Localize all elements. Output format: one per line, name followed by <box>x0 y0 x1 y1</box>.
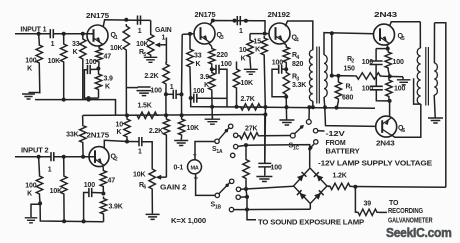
svg-text:INPUT 2: INPUT 2 <box>21 148 49 155</box>
resistor 100 Q5a label <box>393 59 404 66</box>
transformer T1 secondary <box>324 33 376 127</box>
wire meter top <box>195 142 215 160</box>
transformer T1 core <box>317 47 320 104</box>
svg-text:TO SOUND EXPOSURE LAMP: TO SOUND EXPOSURE LAMP <box>258 219 365 226</box>
wire to sound exposure lamp <box>247 197 256 220</box>
wire T2 primary stub <box>414 78 421 104</box>
wire Q3 base drop <box>181 34 184 115</box>
svg-text:SeekIC.com: SeekIC.com <box>386 225 452 240</box>
switch S1A contact 4 <box>231 153 235 157</box>
resistor 27K switch <box>238 133 291 139</box>
svg-text:INPUT 1: INPUT 1 <box>20 26 46 33</box>
junction rail2 end <box>263 113 267 117</box>
resistor 2.2K lower label <box>149 128 163 135</box>
resistor 10K Q1 collector load <box>123 24 129 115</box>
wire input1 to Q1 base <box>53 33 93 35</box>
switch S1B arm <box>219 183 230 194</box>
resistor 1.2K label <box>333 173 347 180</box>
capacitor 100 Q5a label <box>362 59 373 66</box>
junction cap b right <box>244 19 248 23</box>
transistor Q2 <box>89 147 109 167</box>
svg-text:K: K <box>204 82 209 89</box>
junction input1-c <box>81 32 85 36</box>
resistor 2.2K upper <box>163 62 169 94</box>
resistor 10K Q4 lower <box>233 62 239 107</box>
resistor 10K Q4 labels <box>239 47 247 63</box>
svg-text:GAIN 2: GAIN 2 <box>160 185 187 192</box>
switch S1B pivot <box>215 193 219 197</box>
wire R2 bias divider vertical <box>331 33 333 75</box>
resistor R3 labels <box>292 74 306 90</box>
svg-text:4: 4 <box>296 55 299 61</box>
svg-text:100: 100 <box>272 60 283 67</box>
junction 3.9K rail crossing <box>210 105 214 109</box>
svg-text:1: 1 <box>138 28 142 35</box>
switch S1C right contact b <box>314 140 318 144</box>
svg-text:47: 47 <box>104 54 112 61</box>
wire input2 rail <box>40 203 104 221</box>
wire rail mid <box>191 98 375 108</box>
svg-text:100: 100 <box>85 59 96 66</box>
capacitor 100 Q2 <box>84 188 104 222</box>
wire S1A to bridge <box>238 145 310 168</box>
svg-text:10K: 10K <box>241 80 253 87</box>
label TO RECORDING GALVANOMETER <box>388 200 433 224</box>
svg-text:K: K <box>27 66 32 73</box>
resistor 10K lower left <box>124 117 130 142</box>
resistor 2.7K label <box>241 96 255 103</box>
resistor R4 labels <box>292 52 303 68</box>
svg-text:2: 2 <box>115 156 118 162</box>
svg-text:1B: 1B <box>215 204 222 210</box>
junction input1-a <box>37 32 41 36</box>
transistor Q2 ref <box>111 154 118 163</box>
bridge rectifier outline <box>294 168 328 204</box>
resistor 3.9K Q3 labels <box>200 74 210 89</box>
junction Q5 emitter <box>386 47 390 51</box>
potentiometer R6 gain2 <box>149 167 155 214</box>
capacitor 100 Q3 lower <box>191 94 227 103</box>
junction T1 sec rail crossing <box>323 105 327 109</box>
svg-text:2N175: 2N175 <box>195 12 216 19</box>
svg-text:3.9: 3.9 <box>200 74 210 81</box>
transistor Q5 type label <box>374 12 397 19</box>
svg-text:2.7K: 2.7K <box>241 96 255 103</box>
svg-text:100: 100 <box>393 59 404 66</box>
transistor Q4 <box>269 23 290 44</box>
wire Q3 collector to rail <box>210 21 265 34</box>
wiper arrow R5 <box>155 38 167 64</box>
transistor Q3 ref <box>217 32 224 41</box>
svg-text:100: 100 <box>362 59 373 66</box>
transistor Q3 <box>194 23 215 44</box>
resistor 33K Q3 bias <box>187 34 193 98</box>
capacitor 1 Q2 coupling label <box>138 149 142 156</box>
ground T2 secondary <box>428 118 443 123</box>
junction 39 tap <box>353 185 357 189</box>
label K=X 1000 <box>171 218 206 225</box>
node INPUT 2 label <box>21 148 49 155</box>
switch S1C arm <box>295 125 304 133</box>
resistor 10K Q4 lower label <box>241 80 253 87</box>
capacitor 100 Q4 <box>272 65 286 97</box>
junction exposure lamp wire <box>245 189 249 199</box>
junction rail2 2.2K <box>164 113 168 117</box>
junction S1B bridge wire <box>244 187 248 191</box>
resistor R2 labels <box>344 56 355 73</box>
capacitor 1 top rail a label <box>138 28 142 35</box>
transistor Q1 type label <box>86 13 109 20</box>
switch S1B contact 3 <box>236 195 240 199</box>
resistor 3.9K Q3 <box>209 71 215 119</box>
junction rail2 10Kr <box>180 113 184 117</box>
svg-text:100: 100 <box>151 88 162 95</box>
wire bridge bottom run <box>234 208 311 210</box>
meter minus <box>193 152 197 159</box>
switch S1A contact 2 <box>234 133 238 137</box>
switch S1B contact top <box>230 179 234 183</box>
svg-text:10K: 10K <box>133 171 145 178</box>
svg-text:K: K <box>255 47 260 54</box>
svg-text:K: K <box>105 84 110 91</box>
junction rail mid d <box>307 105 311 109</box>
capacitor 100 filter label <box>271 165 282 172</box>
junction Q4 base 15K <box>263 32 267 36</box>
svg-text:GALVANOMETER: GALVANOMETER <box>388 217 433 224</box>
resistor 10K input1 <box>61 34 67 100</box>
SeekIC watermark <box>386 225 452 240</box>
svg-text:3.3K: 3.3K <box>292 82 306 89</box>
svg-text:10K: 10K <box>50 188 62 195</box>
ground R5 <box>144 57 158 62</box>
resistor 100 Q5a <box>385 49 391 77</box>
switch S1C right arm b <box>308 144 314 151</box>
wire Q5 collector <box>390 22 421 26</box>
transistor Q6 ref <box>398 125 405 134</box>
wire bridge bottom stub <box>309 204 311 210</box>
resistor 47 Q2 <box>100 166 106 194</box>
svg-text:6: 6 <box>402 128 405 134</box>
svg-text:K: K <box>241 56 246 63</box>
svg-text:K: K <box>73 49 78 56</box>
meter 0-1 label <box>174 165 184 172</box>
resistor 220 label <box>217 52 228 59</box>
transistor Q5 ref <box>398 33 405 42</box>
wire T2 hairpin right <box>435 23 446 188</box>
label -12V LAMP SUPPLY VOLTAGE <box>318 161 433 168</box>
capacitor 1 interstage <box>166 90 182 99</box>
potentiometer R5 gain1 <box>148 20 154 57</box>
svg-text:100: 100 <box>84 182 95 189</box>
resistor 3.9K Q2 label <box>109 204 123 211</box>
svg-text:39: 39 <box>364 201 372 208</box>
junction Q1 emitter <box>96 67 100 71</box>
wire Q2 collector to rail3 <box>104 140 127 148</box>
resistor R2 150 <box>332 73 403 79</box>
resistor 100 Q5b <box>386 76 392 101</box>
junction top rail 10K <box>124 18 128 22</box>
junction input2-a <box>37 155 41 159</box>
svg-text:1: 1 <box>170 84 174 91</box>
switch S1A contact 3 <box>234 144 238 148</box>
resistor 3.9K Q1 <box>95 69 101 99</box>
svg-text:100: 100 <box>362 86 373 93</box>
capacitor 100 Q3 <box>212 65 227 107</box>
wire lower rail input1 <box>35 100 116 116</box>
svg-text:33: 33 <box>72 41 80 48</box>
resistor 47 Q1 label <box>104 54 112 61</box>
capacitor C input2 label <box>48 167 52 174</box>
wire S1B contact3 <box>240 196 247 198</box>
resistor 33K Q3 labels <box>194 53 202 69</box>
svg-text:K=X 1,000: K=X 1,000 <box>171 218 206 225</box>
capacitor 100 filter <box>258 115 271 176</box>
junction input1-b <box>62 32 66 36</box>
wire input 1 <box>15 33 50 35</box>
meter MA <box>188 160 202 174</box>
ground Q4 R3 <box>279 120 294 125</box>
svg-text:820: 820 <box>292 61 303 68</box>
svg-text:100: 100 <box>271 165 282 172</box>
svg-text:6: 6 <box>143 185 146 191</box>
resistor 220 Q3 emitter <box>208 43 215 70</box>
junction rail1b-a <box>62 98 66 102</box>
svg-text:TO: TO <box>389 200 399 207</box>
wire Q1 collector to rail <box>103 20 150 27</box>
svg-text:FROM: FROM <box>326 140 346 147</box>
svg-text:2: 2 <box>351 59 354 65</box>
junction rail mid a <box>235 105 239 109</box>
junction input2-c <box>81 155 85 159</box>
junction cap b left <box>233 19 237 23</box>
junction R3 bottom <box>284 95 288 99</box>
svg-text:GAIN: GAIN <box>155 27 172 34</box>
junction Q3 bias <box>188 32 192 36</box>
junction cap1c left <box>164 92 168 96</box>
svg-text:150: 150 <box>344 65 355 72</box>
svg-text:3: 3 <box>221 35 224 41</box>
ground input2 <box>25 204 40 223</box>
ground rail2 end <box>211 116 213 119</box>
svg-text:0-1: 0-1 <box>174 165 184 172</box>
wire Q6 collector <box>391 104 421 137</box>
junction Q3 collector rail <box>211 19 215 23</box>
junction Q2 emitter <box>101 192 105 196</box>
wire input 2 <box>15 156 51 158</box>
ground Q3 emitter <box>205 119 221 124</box>
junction R1 top <box>336 74 340 78</box>
switch S1A label <box>212 146 223 155</box>
svg-text:1.2K: 1.2K <box>333 173 347 180</box>
switch S1A pivot <box>215 139 219 143</box>
capacitor 100 Q1 label <box>85 59 96 66</box>
capacitor 1 top rail a <box>138 16 141 25</box>
junction rail mid f <box>335 106 339 110</box>
junction R2 left <box>330 74 334 78</box>
resistor 2.2K upper label <box>144 73 158 80</box>
wire Q4 base <box>250 33 269 35</box>
svg-text:10K: 10K <box>48 58 60 65</box>
junction rail4 b <box>82 219 86 223</box>
resistor 1.2K <box>327 183 446 189</box>
svg-text:1: 1 <box>51 41 55 48</box>
potentiometer R6 labels <box>133 171 146 190</box>
svg-text:2.2K: 2.2K <box>149 128 163 135</box>
switch S1B label <box>211 202 222 211</box>
svg-text:47: 47 <box>108 178 116 185</box>
junction rail3 <box>125 140 129 144</box>
resistor 39 <box>356 209 387 215</box>
transistor Q6 type label <box>376 141 395 148</box>
capacitor 100 Q5a <box>370 49 383 76</box>
resistor 33K Q1 bias <box>80 34 86 100</box>
junction lamp wire crossing <box>245 208 249 212</box>
junction Q5 base bias <box>330 31 334 35</box>
svg-text:2N43: 2N43 <box>376 141 395 148</box>
transistor Q4 type label <box>268 12 291 19</box>
svg-text:1C: 1C <box>293 145 300 151</box>
capacitor 100 Q5b <box>370 76 390 101</box>
wire to 39 resistor <box>355 187 357 212</box>
ground 10K grounded <box>174 141 188 146</box>
svg-text:K: K <box>196 61 201 68</box>
resistor 27K label <box>245 126 257 133</box>
resistor 10K grounded label <box>187 125 199 132</box>
resistor R1 680 <box>335 76 341 108</box>
svg-text:680: 680 <box>342 95 353 102</box>
rail 2 wire <box>83 114 266 117</box>
wire to Q6 emitter <box>389 101 391 117</box>
wire 15K to cap ground <box>264 107 267 163</box>
resistor 3.9K Q2 <box>100 197 106 222</box>
label -12V FROM BATTERY <box>326 131 361 156</box>
bridge diode TL <box>297 172 307 182</box>
transistor Q6 <box>376 116 397 137</box>
junction 100K2 bottom <box>38 201 42 205</box>
label TO SOUND EXPOSURE LAMP <box>258 219 365 226</box>
junction 3.9K bottom <box>87 96 91 100</box>
svg-text:10K: 10K <box>110 45 122 52</box>
resistor 246 vertical <box>243 145 249 189</box>
gain 1 label <box>155 27 172 42</box>
resistor 2.2K lower <box>163 117 169 137</box>
transistor Q4 ref <box>292 35 299 44</box>
ground R2 node <box>397 77 411 85</box>
junction rail mid b <box>263 105 267 109</box>
svg-text:100: 100 <box>25 58 36 65</box>
svg-text:1: 1 <box>48 167 52 174</box>
junction R2 right <box>388 74 392 78</box>
transformer T2 secondary <box>434 23 437 95</box>
resistor 3.9K Q1 label <box>104 76 114 91</box>
resistor 10K grounded <box>178 117 184 140</box>
resistor 1.5K rail2 <box>135 112 159 118</box>
svg-text:1A: 1A <box>216 149 223 155</box>
capacitor 100 decoupling a <box>126 87 151 96</box>
switch S1B contact 2 <box>236 187 240 191</box>
resistor R1 labels <box>342 84 353 102</box>
capacitor 1 interstage label <box>170 84 174 91</box>
svg-text:10: 10 <box>116 122 124 129</box>
ground R6 <box>146 214 160 219</box>
junction Q3 emitter divider <box>210 67 214 71</box>
svg-text:1: 1 <box>162 35 166 42</box>
capacitor C1 value 1 <box>51 41 55 48</box>
transistor Q5 <box>374 24 395 45</box>
resistor 1.5K label <box>138 103 152 110</box>
junction 33K cap node <box>189 96 193 100</box>
junction input2-b <box>62 155 66 159</box>
resistor 10K lower left label <box>116 122 124 137</box>
svg-text:1: 1 <box>138 149 142 156</box>
svg-text:K: K <box>117 129 122 136</box>
capacitor 100 Q3 label <box>221 61 232 68</box>
bridge diode BR <box>314 190 324 200</box>
capacitor 100 Q1 emitter <box>84 65 98 98</box>
svg-text:1.5K: 1.5K <box>138 103 152 110</box>
transistor Q1 ref <box>111 32 118 41</box>
svg-text:1: 1 <box>350 86 353 92</box>
resistor 2.7K <box>239 104 263 110</box>
resistor 100 Q5b label <box>394 86 405 93</box>
capacitor C1 input 1 <box>50 29 53 38</box>
svg-text:2N43: 2N43 <box>374 12 397 19</box>
resistor R3 3.3K <box>283 71 289 120</box>
switch S1A arm <box>219 128 229 140</box>
ground 10K Q4 <box>244 69 258 74</box>
resistor 47 Q1 emitter <box>96 45 102 69</box>
junction rail1b-b <box>87 98 91 102</box>
transformer T2 primary <box>417 22 420 104</box>
switch S1C pivot <box>290 133 295 138</box>
wire Q3 base <box>182 33 194 36</box>
resistor 100K input2 label <box>25 183 36 198</box>
capacitor C input2 <box>51 152 54 161</box>
switch S1A contact top <box>229 124 233 128</box>
svg-text:10K: 10K <box>187 125 199 132</box>
svg-text:100: 100 <box>221 61 232 68</box>
switch S1C label <box>289 143 300 152</box>
resistor 33K Q1 label <box>72 41 80 56</box>
svg-text:-12V: -12V <box>326 131 346 138</box>
svg-text:100: 100 <box>394 86 405 93</box>
svg-text:1: 1 <box>115 35 118 41</box>
svg-text:2.2K: 2.2K <box>144 73 158 80</box>
switch S1C right contact a <box>313 129 324 133</box>
resistor 10K input2 <box>61 157 67 222</box>
node INPUT 1 label <box>20 26 46 33</box>
svg-text:2N192: 2N192 <box>268 12 291 19</box>
resistor 10K Q4 <box>247 34 253 69</box>
svg-text:33K: 33K <box>66 132 78 139</box>
wiper arrow R6 <box>156 137 167 180</box>
svg-text:K: K <box>27 191 32 198</box>
capacitor 1 Q2 coupling <box>127 137 152 167</box>
junction resistor 246 <box>244 143 248 147</box>
resistor 15K Q4 <box>261 36 267 107</box>
svg-text:BATTERY: BATTERY <box>326 148 361 155</box>
meter plus <box>194 174 199 183</box>
junction rail4 a <box>62 219 66 223</box>
wire 2.2K node to rail2 <box>165 94 167 115</box>
potentiometer R5 labels <box>136 41 148 58</box>
svg-text:10: 10 <box>239 47 247 54</box>
switch S1C contact top <box>306 107 311 124</box>
resistor 100K input1 <box>36 34 42 94</box>
transistor Q2 type label <box>87 133 110 140</box>
resistor 33K Q2 bias <box>80 115 86 156</box>
bridge diode BL <box>297 190 307 200</box>
